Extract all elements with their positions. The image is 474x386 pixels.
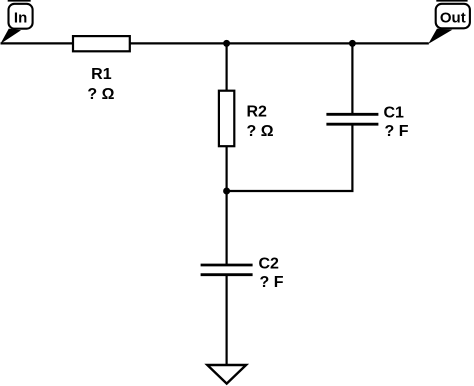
resistor R2 <box>219 91 234 147</box>
port In <box>0 0 32 44</box>
resistor R1 <box>73 36 130 51</box>
svg-text:? F: ? F <box>260 274 284 291</box>
wire: In to R1 <box>1 42 74 44</box>
wire: R2 to node 3 <box>226 146 228 191</box>
wire: node 1 to node 2 <box>227 42 353 44</box>
wire: node 3 down to C2 top <box>226 191 228 265</box>
svg-text:R2: R2 <box>247 104 268 121</box>
wire: node 3 to C1 bottom <box>227 124 353 191</box>
wire: node 2 down to C1 top <box>351 43 353 114</box>
ground <box>207 365 246 384</box>
svg-text:In: In <box>14 10 27 27</box>
capacitor C2 <box>201 265 253 275</box>
svg-text:Out: Out <box>440 9 466 26</box>
node 3 junction dot <box>223 188 230 195</box>
wire: C2 bottom to ground <box>226 275 228 365</box>
svg-text:C1: C1 <box>384 105 405 122</box>
node 2 junction dot <box>349 40 356 47</box>
wire: node 1 down to R2 <box>226 43 228 90</box>
svg-text:? Ω: ? Ω <box>87 86 114 103</box>
wire: node 2 to Out <box>352 42 428 44</box>
wire: R1 to node 1 <box>130 42 227 44</box>
svg-text:? Ω: ? Ω <box>247 123 274 140</box>
svg-text:R1: R1 <box>91 66 112 83</box>
svg-text:? F: ? F <box>385 123 409 140</box>
svg-text:C2: C2 <box>259 256 280 273</box>
capacitor C1 <box>326 114 378 124</box>
port Out <box>428 0 470 44</box>
node 1 junction dot <box>223 40 230 47</box>
